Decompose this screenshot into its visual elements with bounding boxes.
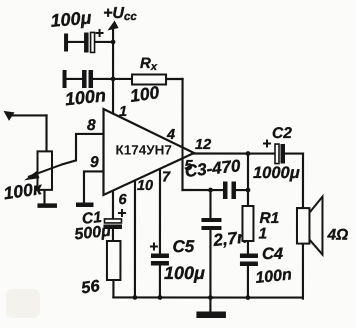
wire C2 right to speaker corner	[285, 152, 303, 154]
ground bar pin 9	[76, 202, 94, 207]
wire input arrow horizontal	[10, 114, 46, 116]
wire 2.7n bottom to rail	[209, 230, 211, 297]
svg-text:1: 1	[258, 226, 267, 243]
node junction dot rail/pin10	[133, 295, 138, 300]
svg-text:6: 6	[118, 192, 127, 208]
ground chassis bar	[196, 312, 226, 319]
svg-text:C5: C5	[172, 237, 194, 256]
terminal Ucc arrow	[108, 20, 119, 30]
capacitor 100n (top)	[63, 70, 107, 109]
svg-text:12: 12	[195, 137, 211, 153]
wire C4 bottom to rail	[247, 266, 249, 297]
capacitor C3 470	[184, 156, 242, 199]
svg-text:100: 100	[129, 82, 161, 106]
capacitor C1 500u electrolytic	[74, 209, 126, 244]
node junction dot rail/C5	[158, 295, 163, 300]
svg-text:R1: R1	[259, 210, 279, 227]
wire 100u cap row	[67, 41, 84, 43]
svg-text:C2: C2	[272, 125, 292, 142]
resistor Rx	[129, 55, 166, 106]
svg-text:9: 9	[90, 154, 99, 171]
resistor R1	[242, 206, 279, 243]
wire pin 7 down to C5	[159, 169, 161, 254]
wire down to speaker top	[302, 154, 304, 209]
wire R56 bottom to rail	[112, 280, 114, 298]
wire pot bottom to ground bar	[43, 190, 45, 204]
wire pin 10 down to rail	[134, 180, 136, 297]
svg-text:56: 56	[80, 277, 101, 297]
resistor 56	[80, 241, 120, 297]
node junction dot C3/R1	[246, 188, 251, 193]
svg-text:4: 4	[166, 127, 175, 143]
node junction dot C3/2.7n	[208, 188, 213, 193]
wire 100n cap row	[66, 78, 82, 80]
svg-text:10: 10	[137, 178, 153, 194]
wire Rx to down-feed	[166, 78, 183, 80]
wire C3 row right	[236, 189, 248, 191]
capacitor C5 100u electrolytic	[150, 237, 205, 283]
wire speaker bottom to rail	[302, 244, 304, 299]
wire pin4/pin5 vertical from Rx down to C3	[181, 79, 183, 190]
wire feedback vertical from output junction	[247, 154, 249, 207]
ground bar pot bottom	[37, 203, 57, 208]
svg-text:100μ: 100μ	[50, 7, 93, 30]
node junction dot output/feedback	[246, 151, 251, 156]
wire input down to potentiometer	[45, 115, 47, 151]
svg-text:1000μ: 1000μ	[253, 164, 300, 182]
wire R1 to C4	[247, 241, 249, 254]
svg-text:100n: 100n	[64, 85, 107, 109]
capacitor C2 1000u electrolytic	[253, 125, 300, 182]
node junction dot on Ucc rail at 100n	[111, 77, 116, 82]
terminal input arrow	[4, 111, 15, 121]
wire bottom common rail	[113, 296, 302, 298]
svg-text:К174УН7: К174УН7	[116, 142, 172, 157]
wire wiper to pin 8	[62, 134, 104, 165]
potentiometer 100k	[2, 151, 62, 203]
wire output pin 12	[193, 152, 276, 154]
speaker 4 ohm	[297, 197, 348, 255]
capacitor C4 100n	[240, 245, 293, 287]
wire 2.7n junction down	[209, 190, 211, 218]
wire +Ucc vertical rail	[112, 28, 114, 114]
wire ground stub	[209, 298, 211, 313]
wire C5 bottom to rail	[159, 265, 161, 297]
svg-text:8: 8	[87, 117, 96, 134]
op-amp U1 K174UN7 triangle	[103, 109, 194, 195]
capacitor 2.7n	[201, 218, 248, 250]
node junction dot rail/C4	[246, 295, 251, 300]
node junction dot on Ucc rail at 100u	[111, 40, 116, 45]
wire C1 to R 56	[112, 229, 114, 241]
svg-text:4Ω: 4Ω	[326, 227, 348, 244]
faint sticker residue bottom-left	[6, 289, 40, 318]
wire C3 row left	[182, 189, 222, 191]
svg-text:C4: C4	[262, 245, 283, 263]
node junction dot rail/ground	[208, 295, 213, 300]
svg-text:1: 1	[119, 104, 127, 120]
capacitor 100u (top, electrolytic)	[50, 7, 104, 52]
svg-text:7: 7	[162, 169, 171, 185]
wire pin 9 to ground bar	[84, 171, 104, 202]
svg-text:100μ: 100μ	[164, 263, 205, 283]
wire pin 6 down to C1	[112, 190, 114, 219]
